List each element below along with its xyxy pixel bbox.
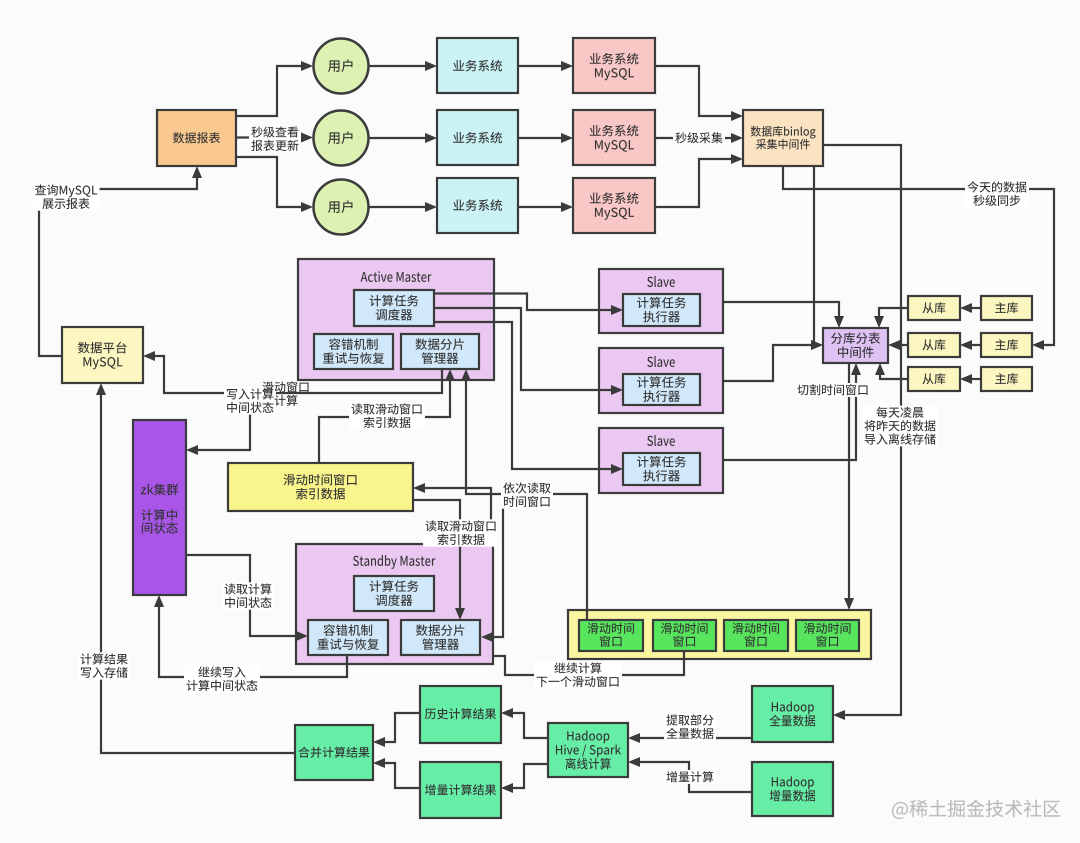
text 滑动时间窗口 1	[587, 623, 634, 634]
text Slave 2	[647, 356, 675, 367]
text 滑动时间窗口 3	[732, 623, 779, 634]
box 主库 2	[981, 333, 1032, 357]
box Hadoop 增量数据	[752, 762, 833, 816]
wire 滑动索引->SM数据分片 读取滑动窗口索引数据	[413, 500, 460, 610]
wire 数据报表->用户2	[236, 136, 303, 138]
text Slave 1	[647, 276, 675, 287]
box SM 容错机制重试与恢复	[308, 620, 388, 655]
user circle 3	[314, 180, 369, 235]
label 增量计算	[664, 770, 716, 784]
box 业务系统 1	[437, 38, 518, 93]
text 从库 3	[922, 373, 945, 384]
text 数据报表	[173, 132, 220, 143]
text 业务系统 1	[453, 60, 502, 72]
text Slave 3	[647, 435, 675, 446]
box 滑动时间窗口 3	[724, 620, 788, 651]
text 用户 3	[328, 200, 353, 213]
wire 历史->合并计算结果	[383, 713, 420, 742]
box 滑动时间窗口索引数据	[228, 463, 413, 511]
wire 从库2->分库分表	[898, 344, 908, 346]
label 写入计算 中间状态	[224, 387, 276, 414]
text Hadoop Hive Spark 离线计算	[567, 730, 609, 743]
box 增量计算结果	[420, 762, 501, 818]
wire Slave2->分库分表	[723, 345, 813, 381]
box 滑动时间窗口 2	[653, 620, 716, 651]
text 数据库binlog 采集中间件	[751, 126, 816, 139]
text Hadoop 全量数据	[772, 701, 814, 714]
wire 业务系统3->MySQL3	[518, 206, 563, 208]
wire 增量->合并计算结果	[383, 763, 420, 788]
box AM 数据分片管理器	[401, 334, 479, 369]
box Slave 3	[599, 428, 723, 493]
text SM 计算任务 调度器	[370, 580, 419, 592]
wire Slave1->分库分表	[723, 302, 839, 318]
box 数据平台MySQL	[62, 327, 143, 383]
wire 窗口1->AM数据分片 依次读取时间窗口	[466, 379, 587, 620]
wire 数据报表->用户1	[236, 66, 303, 116]
wire 业务系统2->MySQL2	[518, 137, 563, 139]
wire 用户3->业务系统3	[369, 206, 427, 208]
label 继续计算 下一个滑动窗口	[534, 661, 622, 688]
wire 依次读取 branch->SM数据分片	[491, 494, 503, 637]
box 从库 2	[908, 333, 960, 357]
box 业务系统MySQL 2	[573, 110, 655, 165]
wire binlog->主库2 今天的数据秒级同步	[783, 166, 1054, 345]
box zk集群	[133, 420, 186, 595]
label 切割时间窗口	[795, 383, 871, 397]
text Active Master	[361, 271, 432, 282]
label 秒级查看 报表更新	[249, 125, 301, 152]
box 分库分表中间件	[823, 328, 888, 363]
box 滑动时间窗口 4	[796, 620, 859, 651]
user circle 1	[314, 39, 369, 94]
box 历史计算结果	[420, 686, 501, 743]
wire 合并计算结果->数据平台MySQL 计算结果写入存储	[101, 393, 295, 753]
wire 调度器->Slave2	[434, 308, 613, 390]
text 业务系统MySQL 3	[590, 192, 639, 204]
wire 数据平台MySQL->数据报表 查询MySQL展示报表	[39, 176, 197, 356]
wire MySQL3->binlog	[655, 159, 733, 207]
label 计算结果 写入存储	[78, 652, 130, 679]
wire AM数据分片->数据平台MySQL 写入计算中间状态	[153, 356, 442, 393]
text 主库 2	[995, 339, 1018, 350]
wire Hive->历史计算结果	[511, 713, 548, 738]
box Slave3 计算任务执行器	[623, 453, 700, 485]
wire 从库3->分库分表	[880, 373, 908, 379]
text 增量计算结果	[425, 784, 496, 795]
wire Hadoop全量->Hive 提取部分全量数据	[638, 737, 752, 739]
text Hadoop 增量数据	[772, 776, 814, 789]
wire Hive->增量计算结果	[511, 764, 548, 788]
text 业务系统 3	[453, 199, 502, 211]
text 合并计算结果	[298, 747, 369, 758]
wire StandbyMaster->滑动索引 读取	[423, 488, 491, 544]
text Standby Master	[353, 555, 435, 569]
wire Slave3->分库分表	[723, 373, 856, 460]
box 从库 3	[908, 367, 960, 391]
text 滑动时间窗口 4	[804, 623, 851, 634]
wire 用户1->业务系统1	[369, 65, 427, 67]
label 今天的数据 秒级同步	[965, 180, 1029, 207]
box 滑动时间窗口 1	[579, 620, 643, 651]
wire StandbyMaster->窗口2 继续计算下一个滑动窗口	[493, 652, 684, 675]
label 每天凌晨 将昨天的数据 导入离线存储	[862, 406, 938, 447]
wire 主库2->从库2	[970, 344, 981, 346]
wire branch->zk集群 滑动窗口计算	[196, 393, 250, 450]
wire 调度器->Slave3	[434, 322, 613, 469]
text 滑动时间窗口 索引数据	[284, 474, 357, 486]
wire 调度器->Slave1	[434, 294, 613, 311]
box Active Master	[298, 259, 494, 380]
box AM 容错机制重试与恢复	[314, 334, 393, 369]
text 主库 3	[995, 373, 1018, 384]
label 查询MySQL 展示报表	[33, 183, 100, 210]
wire MySQL2->binlog	[655, 137, 733, 139]
wire 滑动索引->AM数据分片 读取滑动窗口索引数据	[319, 379, 450, 463]
wire binlog->分库分表中间件	[813, 166, 814, 345]
box Slave 1	[599, 269, 723, 333]
text 业务系统MySQL 2	[590, 125, 639, 137]
label 滑动窗口 计算	[262, 381, 308, 392]
box 从库 1	[908, 296, 960, 320]
box Hadoop 全量数据	[752, 686, 833, 742]
wire 数据报表->用户3	[236, 157, 303, 207]
text 计算任务执行器 2	[637, 376, 686, 388]
box 数据库binlog采集中间件	[743, 110, 823, 166]
wire zk集群->SM容错 读取计算中间状态	[186, 555, 298, 636]
watermark 稀土掘金技术社区	[892, 800, 1060, 820]
label 继续写入 计算中间状态	[184, 665, 260, 692]
text AM 计算任务 调度器	[370, 295, 419, 307]
box SM 计算任务调度器	[354, 576, 434, 611]
text 计算任务执行器 3	[637, 456, 686, 468]
text 数据平台 MySQL	[78, 342, 127, 354]
wire 业务系统1->MySQL1	[518, 65, 563, 67]
box 主库 1	[981, 296, 1032, 320]
box 业务系统MySQL 1	[573, 38, 655, 93]
wire SM容错->zk集群 继续写入计算中间状态	[159, 605, 347, 677]
text 用户 2	[328, 131, 353, 144]
label 读取计算 中间状态	[222, 582, 274, 609]
box 合并计算结果	[295, 725, 373, 780]
box 主库 3	[981, 367, 1032, 391]
text SM 数据分片 管理器	[416, 624, 464, 636]
box Slave2 计算任务执行器	[623, 374, 700, 405]
box yellow window container	[568, 610, 871, 659]
text 计算任务执行器 1	[637, 297, 686, 309]
box Hadoop Hive Spark 离线计算	[548, 723, 628, 777]
text zk集群 计算中间状态	[141, 484, 178, 496]
wire 用户2->业务系统2	[369, 137, 427, 139]
wire 主库3->从库3	[970, 378, 981, 380]
wire binlog->Hadoop全量数据	[823, 145, 901, 715]
label 依次读取 时间窗口	[501, 481, 553, 508]
box AM 计算任务调度器	[354, 290, 434, 326]
text SM 容错机制 重试与恢复	[323, 624, 372, 636]
box 业务系统MySQL 3	[573, 178, 655, 233]
box 数据报表	[157, 110, 236, 166]
text AM 数据分片 管理器	[415, 338, 463, 350]
text 分库分表 中间件	[831, 332, 880, 344]
text 业务系统 2	[453, 132, 502, 144]
wire 分库分表->窗口容器 切割时间窗口	[848, 363, 850, 600]
label 读取滑动窗口 索引数据 lower	[423, 519, 499, 546]
user circle 2	[314, 111, 369, 166]
box 业务系统 3	[437, 178, 518, 233]
text 业务系统MySQL 1	[590, 53, 639, 65]
wire 主库1->从库1	[970, 307, 981, 309]
box Standby Master	[296, 544, 493, 664]
label 秒级采集	[673, 131, 725, 145]
text 从库 2	[922, 339, 945, 350]
text 从库 1	[922, 302, 945, 313]
text 历史计算结果	[425, 708, 496, 719]
text 滑动时间窗口 2	[661, 623, 708, 634]
box Slave1 计算任务执行器	[623, 294, 700, 326]
label 读取滑动窗口 索引数据 upper	[349, 402, 425, 429]
text AM 容错机制 重试与恢复	[329, 338, 378, 350]
text 主库 1	[995, 302, 1018, 313]
text 用户 1	[328, 59, 353, 72]
wire Hadoop增量->Hive 增量计算	[638, 762, 752, 792]
label 提取部分 全量数据	[664, 713, 716, 740]
box Slave 2	[599, 348, 723, 413]
box SM 数据分片管理器	[401, 620, 480, 655]
box 业务系统 2	[437, 110, 518, 165]
wire 从库1->分库分表	[879, 308, 908, 318]
wire MySQL1->binlog	[655, 66, 733, 116]
